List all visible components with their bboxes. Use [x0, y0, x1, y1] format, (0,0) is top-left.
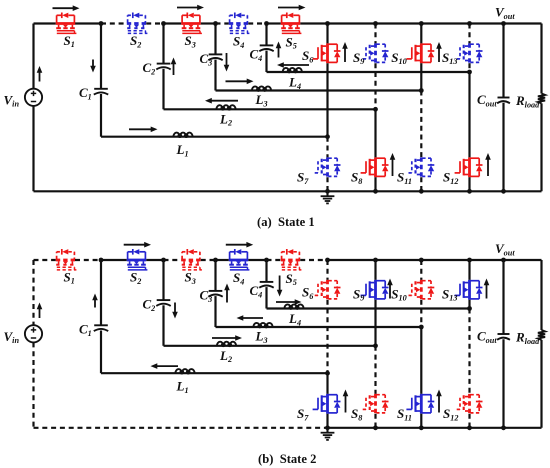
inductor L2 (s2) [217, 342, 236, 347]
transistor S11 (s1) [406, 157, 434, 177]
junction bottom bus Cout branch (s2) [501, 425, 506, 430]
wire Vin bottom (s1) [32, 106, 34, 191]
junction L4 phase node (s1) [467, 70, 472, 75]
wire Cout top (s2) [502, 260, 504, 334]
wire top bus seg3 (s2) [101, 259, 127, 261]
wire C2 top (s2) [162, 260, 164, 300]
inductor L1 (s2) [175, 369, 194, 374]
current arrow L1 (s1) [129, 127, 158, 133]
current arrow S11 (s2) [436, 390, 442, 413]
wire C4 bottom (s2) [265, 287, 267, 308]
wire chain S10 to phase node (s2) [420, 300, 422, 327]
source Vin (s1) [25, 89, 42, 106]
capacitor C2 (s1) [156, 64, 170, 70]
junction node2 top bus (s1) [161, 21, 166, 26]
transistor S8 (s2) [361, 394, 389, 414]
junction node2 top bus (s2) [161, 258, 166, 263]
junction L2 phase node (s2) [373, 343, 378, 348]
source Vin (s2) [25, 325, 42, 342]
junction bottom bus chain4 (s1) [467, 189, 472, 194]
current arrow above S4 [226, 242, 253, 248]
junction bottom bus chain2 (s1) [373, 189, 378, 194]
wire right edge top (s1) [540, 24, 542, 94]
wire chain S9 upper (s1) [374, 24, 376, 44]
wire Vin top (s2) [32, 260, 34, 325]
current arrow L3 (s1) [226, 79, 254, 85]
current arrow above S3 [177, 5, 204, 11]
current arrow Vin (s2) [37, 303, 43, 319]
junction L3 phase node (s1) [419, 88, 424, 93]
wire Cout top (s1) [502, 24, 504, 98]
voltage arrow C3 (s1) [224, 53, 230, 72]
wire C1 top (s2) [100, 260, 102, 325]
wire chain S12 from phase node (s2) [468, 309, 470, 394]
transistor S6 (s2) [313, 280, 341, 300]
wire C1 top (s1) [100, 24, 102, 89]
wire chain S7 from phase node (s1) [326, 137, 328, 158]
current arrow S10 (s1) [436, 42, 442, 62]
ground (s1) [321, 191, 335, 203]
wire chain S11 from phase node (s1) [420, 91, 422, 158]
inductor L3 (s2) [253, 323, 272, 328]
junction bottom bus chain3 (s2) [419, 425, 424, 430]
wire chain S12 lower (s1) [468, 177, 470, 191]
capacitor C4 (s2) [259, 282, 273, 288]
wire chain S13 upper (s1) [468, 24, 470, 44]
current arrow L2 (s1) [205, 98, 238, 104]
transistor S7 (s2) [313, 394, 341, 414]
ground (s2) [321, 428, 335, 440]
wire chain S12 lower (s2) [468, 414, 470, 428]
junction bottom bus chain3 (s1) [419, 189, 424, 194]
wire chain S6 to phase node (s1) [326, 63, 328, 137]
transistor S6 (s1) [313, 43, 341, 63]
current arrow S7 (s2) [343, 390, 349, 413]
wire top bus right (s2) [328, 259, 542, 261]
transistor S9 (s1) [361, 43, 389, 63]
junction top bus chain3 (s1) [419, 21, 424, 26]
wire bottom bus (s1) [34, 190, 542, 192]
junction L4 phase node (s2) [467, 306, 472, 311]
voltage arrow C1 (s1) [90, 60, 96, 73]
inductor L4 (s2) [284, 304, 303, 309]
wire top bus seg10 (s2) [300, 259, 327, 261]
wire bottom bus right (s2) [328, 427, 542, 429]
transistor S4 (s2) [229, 249, 250, 270]
junction bottom bus chain2 (s2) [373, 425, 378, 430]
wire top bus seg6 (s2) [201, 259, 216, 261]
current arrow above S5 [278, 5, 306, 11]
junction bottom bus chain4 (s2) [467, 425, 472, 430]
wire C3 top (s2) [214, 260, 216, 291]
wire inductor L2 line (s2) [164, 345, 376, 347]
junction top bus chain3 (s2) [419, 258, 424, 263]
wire top bus seg8 (s2) [248, 259, 266, 261]
wire C4 top (s2) [265, 260, 267, 282]
junction bottom bus Cout branch (s1) [501, 189, 506, 194]
transistor S3 (s1) [181, 13, 202, 34]
transistor S8 (s1) [361, 157, 389, 177]
wire chain S7 lower (s2) [326, 414, 328, 428]
junction bottom bus chain1 (s1) [325, 189, 330, 194]
transistor S13 (s2) [455, 280, 483, 300]
transistor S12 (s2) [455, 394, 483, 414]
wire top bus seg1 (s1) [34, 22, 56, 24]
wire chain S8 from phase node (s2) [374, 346, 376, 394]
wire chain S6 upper (s1) [326, 24, 328, 44]
current arrow S9 (s2) [387, 279, 393, 299]
capacitor C4 (s1) [259, 45, 273, 51]
wire top bus seg7 (s1) [216, 22, 229, 24]
wire C4 top (s1) [265, 24, 267, 46]
wire top bus seg6 (s1) [201, 22, 216, 24]
voltage arrow C2 (s1) [171, 58, 177, 76]
junction L2 phase node (s1) [373, 107, 378, 112]
wire top bus seg2 (s2) [75, 259, 101, 261]
transistor S7 (s1) [313, 157, 341, 177]
svg-text:(a) State 1: (a) State 1 [257, 215, 315, 229]
svg-text:(b) State 2: (b) State 2 [258, 452, 316, 466]
current arrow L1 (s2) [151, 363, 179, 369]
wire inductor L1 line (s2) [101, 372, 328, 374]
wire top bus seg9 (s1) [267, 22, 281, 24]
wire top bus seg5 (s1) [164, 22, 182, 24]
wire inductor L4 line (s1) [267, 71, 470, 73]
transistor S13 (s1) [455, 43, 483, 63]
wire chain S10 upper (s2) [420, 260, 422, 280]
junction top bus chain2 (s2) [373, 258, 378, 263]
wire C2 bottom (s2) [162, 305, 164, 346]
transistor S12 (s1) [455, 157, 483, 177]
wire chain S11 from phase node (s2) [420, 327, 422, 394]
wire chain S10 upper (s1) [420, 24, 422, 44]
wire top bus seg8 (s1) [248, 22, 266, 24]
junction node1 top bus (s2) [99, 258, 104, 263]
voltage arrow C4 (s1) [276, 42, 282, 58]
wire Cout bottom (s2) [502, 339, 504, 428]
junction node3 top bus (s2) [213, 258, 218, 263]
current arrow S13 (s2) [484, 279, 490, 299]
junction bottom bus chain1 (s2) [325, 425, 330, 430]
junction L1 phase node (s2) [325, 371, 330, 376]
current arrow above S2 [124, 242, 151, 248]
current arrow S6 (s1) [342, 42, 348, 62]
junction Vout node (s2) [501, 258, 506, 263]
wire top bus seg2 (s1) [75, 22, 101, 24]
wire chain S6 upper (s2) [326, 260, 328, 280]
wire top bus seg5 (s2) [164, 259, 182, 261]
wire chain S10 to phase node (s1) [420, 63, 422, 90]
wire chain S13 to phase node (s2) [468, 300, 470, 309]
inductor L3 (s1) [252, 86, 271, 91]
wire top bus seg3 (s1) [101, 22, 127, 24]
voltage arrow C1 (s2) [92, 294, 98, 308]
transistor S10 (s2) [406, 280, 434, 300]
wire C3 bottom (s2) [214, 296, 216, 327]
wire inductor L2 line (s1) [164, 108, 376, 110]
current arrow Vin (s1) [37, 66, 43, 82]
wire top bus seg10 (s1) [300, 22, 327, 24]
junction node4 top bus (s2) [264, 258, 269, 263]
transistor S3 (s2) [181, 249, 202, 270]
current arrow above S1 [53, 5, 80, 11]
wire C2 bottom (s1) [162, 69, 164, 110]
wire top bus right (s1) [328, 22, 542, 24]
current arrow L4 (s2) [276, 299, 302, 305]
capacitor C2 (s2) [156, 300, 170, 306]
wire chain S8 from phase node (s1) [374, 109, 376, 157]
junction L3 phase node (s2) [419, 325, 424, 330]
junction node3 top bus (s1) [213, 21, 218, 26]
voltage arrow C4 (s2) [277, 276, 283, 297]
junction Vout node (s1) [501, 21, 506, 26]
wire chain S9 to phase node (s1) [374, 63, 376, 109]
capacitor C1 (s1) [94, 89, 108, 95]
wire top bus seg4 (s2) [146, 259, 163, 261]
current arrow L3 (s2) [237, 315, 264, 321]
wire right edge bottom (s2) [540, 340, 542, 428]
wire Vin top (s1) [32, 24, 34, 89]
current arrow S8 (s1) [390, 153, 396, 176]
capacitor C1 (s2) [94, 325, 108, 331]
junction top bus chain4 (s1) [467, 21, 472, 26]
wire chain S6 to phase node (s2) [326, 300, 328, 374]
wire C3 bottom (s1) [214, 60, 216, 91]
wire top bus seg9 (s2) [267, 259, 281, 261]
wire top bus seg4 (s1) [146, 22, 163, 24]
wire right edge bottom (s1) [540, 103, 542, 191]
junction L1 phase node (s1) [325, 134, 330, 139]
wire C3 top (s1) [214, 24, 216, 55]
wire inductor L3 line (s1) [216, 89, 422, 91]
wire chain S12 from phase node (s1) [468, 72, 470, 157]
current arrow L2 (s2) [212, 335, 242, 341]
transistor S10 (s1) [406, 43, 434, 63]
inductor L1 (s1) [173, 133, 192, 138]
wire chain S7 lower (s1) [326, 177, 328, 191]
wire top bus seg7 (s2) [216, 259, 229, 261]
capacitor Cout (s1) [497, 98, 510, 104]
resistor Rload (s1) [538, 94, 545, 104]
wire inductor L4 line (s2) [267, 307, 470, 309]
transistor S1 (s2) [56, 249, 77, 270]
transistor S2 (s2) [127, 249, 148, 270]
transistor S5 (s2) [281, 249, 302, 270]
wire Vin bottom (s2) [32, 342, 34, 427]
wire chain S8 lower (s2) [374, 414, 376, 428]
wire chain S7 from phase node (s2) [326, 373, 328, 394]
voltage arrow C3 (s2) [224, 284, 230, 303]
wire chain S9 to phase node (s2) [374, 300, 376, 346]
transistor S11 (s2) [406, 394, 434, 414]
wire C4 bottom (s1) [265, 51, 267, 72]
current arrow S12 (s1) [485, 153, 491, 176]
wire C1 bottom (s2) [100, 331, 102, 374]
wire chain S13 to phase node (s1) [468, 63, 470, 72]
capacitor C3 (s1) [208, 54, 222, 60]
junction top bus chain4 (s2) [467, 258, 472, 263]
wire chain S9 upper (s2) [374, 260, 376, 280]
inductor L2 (s1) [216, 105, 235, 110]
wire right edge top (s2) [540, 260, 542, 330]
wire top bus seg1 (s2) [34, 259, 56, 261]
capacitor Cout (s2) [497, 334, 510, 340]
junction top bus chain2 (s1) [373, 21, 378, 26]
junction top bus chain1 (s2) [325, 258, 330, 263]
transistor S1 (s1) [56, 13, 77, 34]
wire chain S11 lower (s2) [420, 414, 422, 428]
resistor Rload (s2) [538, 330, 545, 340]
wire C2 top (s1) [162, 24, 164, 64]
inductor L4 (s1) [283, 68, 302, 73]
current arrow L4 (s1) [277, 62, 309, 68]
wire C1 bottom (s1) [100, 94, 102, 137]
wire chain S13 upper (s2) [468, 260, 470, 280]
wire inductor L1 line (s1) [101, 136, 328, 138]
transistor S2 (s1) [127, 13, 148, 34]
transistor S4 (s1) [229, 13, 250, 34]
capacitor C3 (s2) [208, 291, 222, 297]
transistor S5 (s1) [281, 13, 302, 34]
junction node4 top bus (s1) [264, 21, 269, 26]
wire inductor L3 line (s2) [216, 326, 422, 328]
junction node1 top bus (s1) [99, 21, 104, 26]
transistor S9 (s2) [361, 280, 389, 300]
wire bottom bus left dashed (s2) [34, 427, 328, 429]
wire chain S11 lower (s1) [420, 177, 422, 191]
junction top bus chain1 (s1) [325, 21, 330, 26]
voltage arrow C2 (s2) [172, 303, 178, 319]
wire chain S8 lower (s1) [374, 177, 376, 191]
wire Cout bottom (s1) [502, 103, 504, 192]
